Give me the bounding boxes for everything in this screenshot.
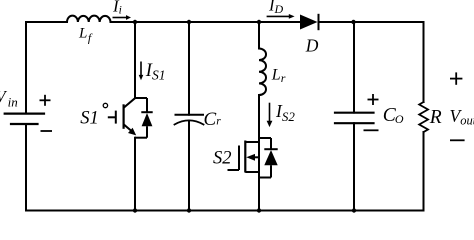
plus/minus Vout — [450, 72, 465, 140]
node S1 top — [133, 20, 137, 24]
S1 diode branch wire lower — [146, 126, 148, 138]
wire top rail right — [319, 21, 424, 23]
plus/minus Co — [364, 94, 379, 130]
S2 body diode triangle — [264, 150, 277, 165]
S1 gate bar — [115, 111, 117, 124]
node S2 bottom — [257, 208, 261, 212]
svg-text:ID: ID — [268, 0, 284, 16]
current arrow Ii — [113, 15, 132, 20]
svg-text:S1: S1 — [80, 109, 99, 129]
wire right vertical upper — [423, 22, 425, 102]
node Co bottom — [352, 208, 356, 212]
current arrow IS1 — [139, 62, 144, 81]
wire Cr branch upper — [188, 22, 190, 115]
plus/minus battery — [40, 95, 53, 131]
capacitor Cr — [175, 115, 204, 125]
S2 source stub — [245, 171, 259, 173]
S2 body lead — [254, 156, 259, 158]
node Cr top — [187, 20, 191, 24]
node Lr top — [257, 20, 261, 24]
capacitor Co plates — [335, 113, 374, 124]
S1 antiparallel diode cathode bar — [141, 111, 152, 113]
wire top rail left — [26, 21, 67, 23]
S2 gate bar — [238, 146, 240, 171]
node Cr bottom — [187, 208, 191, 212]
resistor R — [419, 102, 428, 132]
wire Cr branch lower — [188, 121, 190, 211]
S1 gate lead — [108, 116, 116, 118]
S2 body arrowhead — [246, 154, 255, 161]
wire right vertical lower — [423, 132, 425, 211]
battery Vin plates — [5, 114, 44, 124]
node S1 bottom — [133, 208, 137, 212]
wire Co branch upper — [353, 22, 355, 113]
svg-text:R: R — [429, 107, 442, 128]
wire Lr branch upper — [258, 22, 260, 49]
S1 emitter arrowhead — [128, 128, 136, 136]
wire S1 branch upper — [134, 22, 136, 98]
S2 channel bar — [244, 141, 246, 173]
inductor Lr — [259, 49, 266, 96]
S2 body diode wire lower — [270, 165, 272, 177]
transistor S2 (MOSFET) — [228, 138, 278, 178]
wire bottom rail — [26, 210, 424, 212]
wire Co branch lower — [353, 123, 355, 210]
S1 body bar — [122, 104, 124, 129]
current arrow ID — [267, 14, 295, 19]
S2 body diode wire upper — [270, 138, 272, 149]
S1 bottom tie — [135, 137, 147, 139]
current arrow IS2 — [267, 103, 273, 127]
svg-text:S2: S2 — [213, 148, 232, 168]
wire left vertical upper — [25, 22, 27, 114]
inductor Lf — [67, 16, 111, 22]
S1 top tie — [135, 97, 147, 99]
wire S1 branch lower — [134, 138, 136, 211]
transistor S1 (IGBT) — [103, 98, 152, 138]
wire left vertical lower — [25, 124, 27, 211]
diode D — [300, 14, 319, 30]
S2 body diode bottom tie — [259, 177, 271, 179]
S1 diode branch wire upper — [146, 98, 148, 112]
node Co top — [351, 20, 355, 24]
wire top rail middle — [111, 21, 301, 23]
S2 body diode top tie — [259, 137, 271, 139]
wire S2 branch lower — [258, 95, 260, 211]
S1 gate circle — [103, 103, 107, 107]
svg-text:D: D — [305, 36, 319, 56]
S1 antiparallel diode triangle — [142, 113, 153, 126]
S2 drain stub — [245, 141, 259, 143]
S2 gate lead — [228, 169, 240, 171]
S1 emitter lead — [124, 124, 132, 131]
S1 collector lead — [124, 98, 135, 108]
S2 body diode cathode bar — [264, 148, 277, 150]
